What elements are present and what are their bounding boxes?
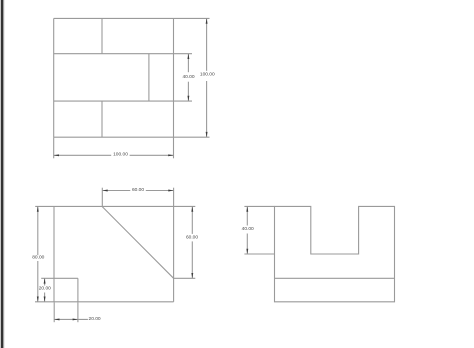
- svg-text:60.00: 60.00: [132, 187, 144, 193]
- svg-text:100.00: 100.00: [113, 152, 128, 158]
- svg-text:40.00: 40.00: [182, 74, 194, 80]
- svg-text:80.00: 80.00: [32, 255, 44, 261]
- svg-text:20.00: 20.00: [89, 316, 101, 322]
- svg-text:40.00: 40.00: [242, 226, 254, 232]
- svg-text:60.00: 60.00: [186, 235, 198, 241]
- svg-text:20.00: 20.00: [39, 286, 51, 292]
- svg-text:100.00: 100.00: [200, 72, 215, 78]
